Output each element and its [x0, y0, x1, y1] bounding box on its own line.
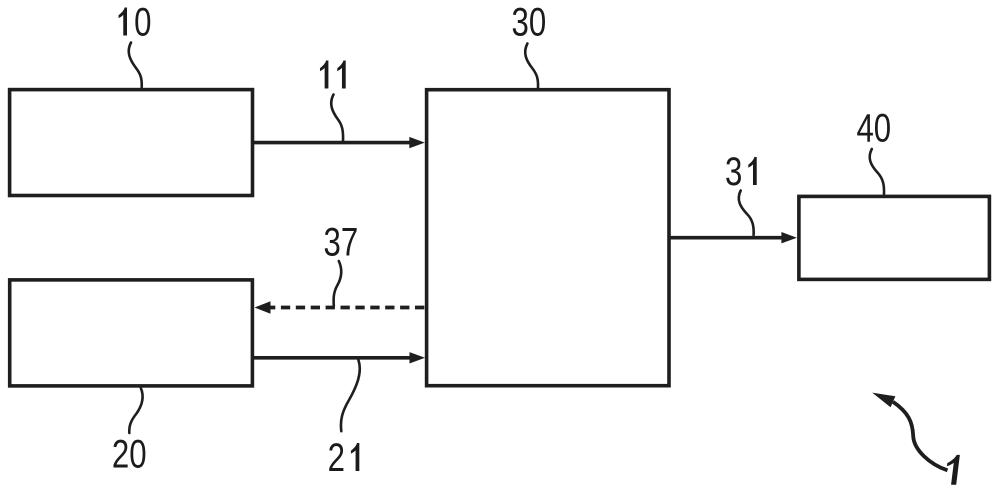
svg-text:40: 40	[856, 106, 891, 151]
svg-text:37: 37	[324, 220, 359, 265]
svg-text:3: 3	[725, 149, 742, 194]
svg-text:30: 30	[512, 0, 547, 44]
svg-text:2: 2	[328, 435, 345, 480]
svg-text:20: 20	[112, 432, 147, 477]
svg-text:0: 0	[134, 0, 151, 44]
